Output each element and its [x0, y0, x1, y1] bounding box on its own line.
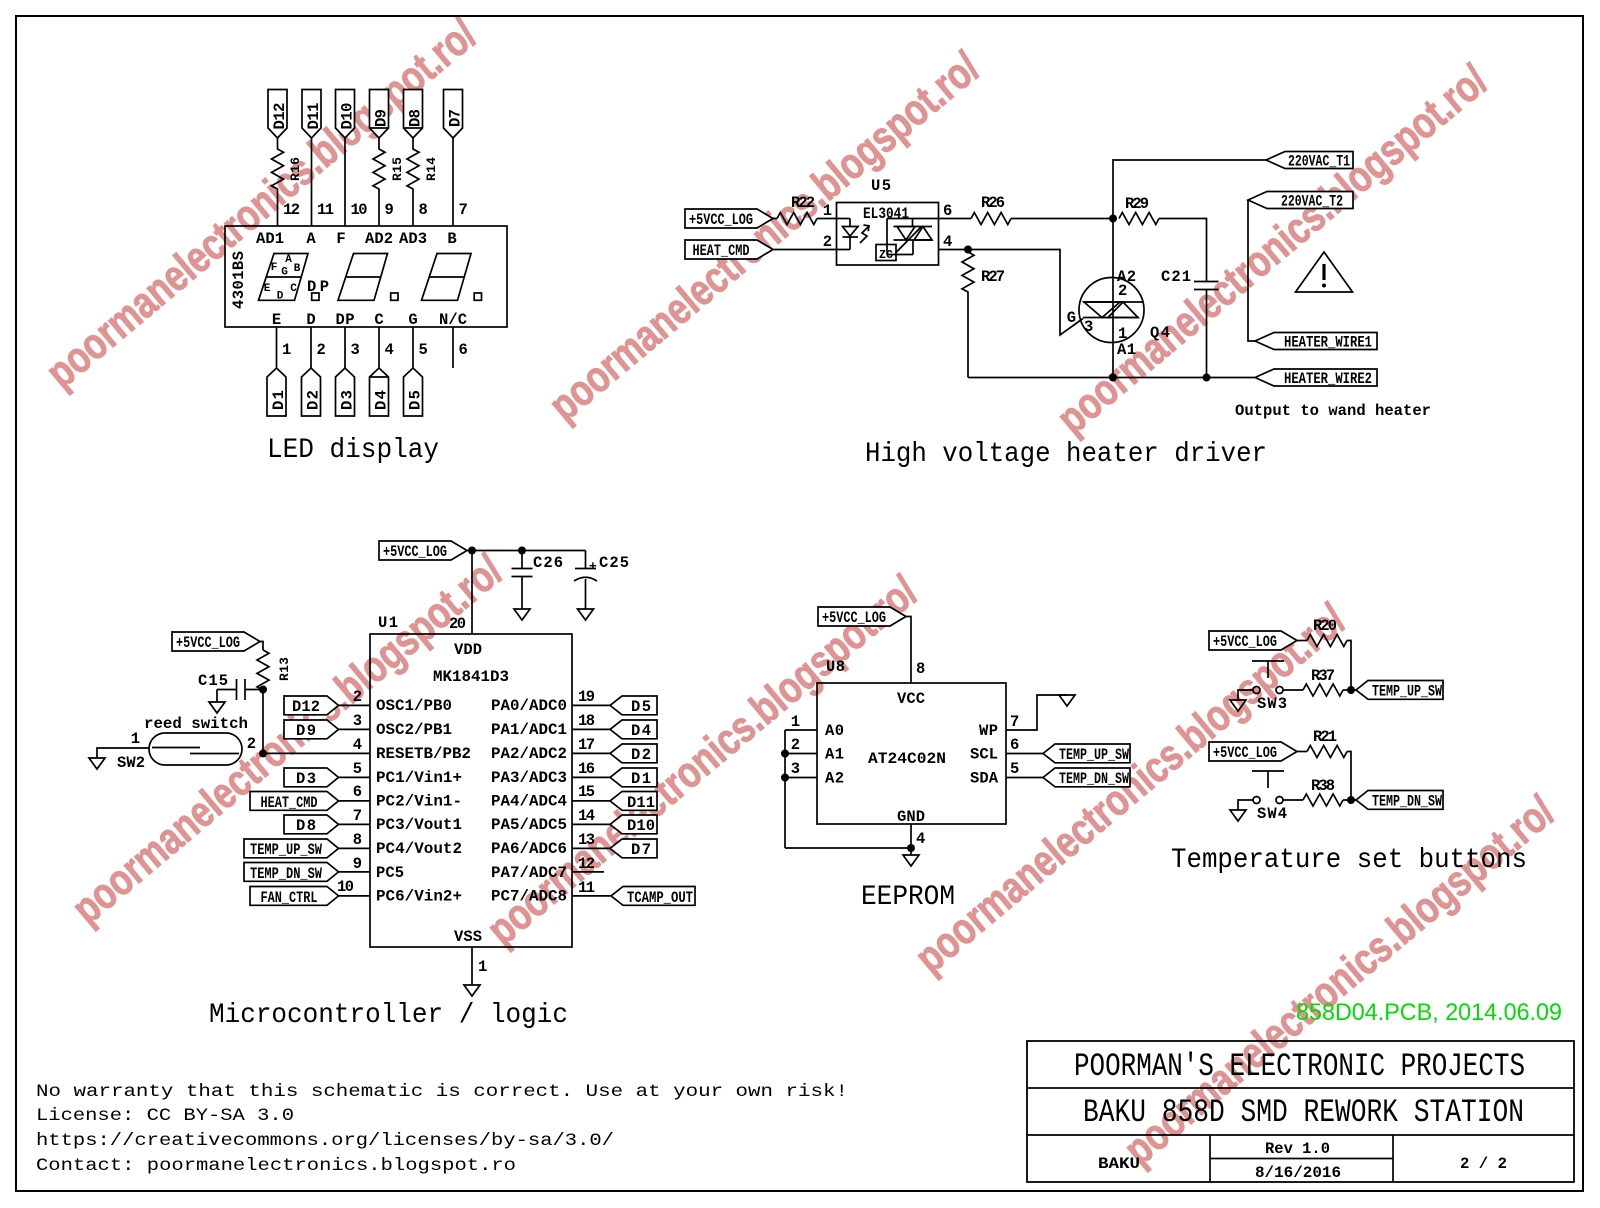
net flag D3 (U1) — [284, 760, 370, 788]
svg-text:3: 3 — [351, 341, 360, 359]
svg-text:R22: R22 — [791, 194, 815, 212]
svg-text:VSS: VSS — [454, 928, 482, 946]
junction node A1 — [781, 750, 789, 758]
net flag +5VCC_LOG (R20) — [1209, 631, 1297, 651]
net flag 220VAC_T2 — [1248, 192, 1353, 211]
wire flag to R13 — [260, 642, 263, 651]
wire R20 to node — [1347, 641, 1351, 691]
svg-text:1: 1 — [478, 958, 487, 976]
svg-text:3: 3 — [1084, 318, 1093, 336]
capacitor C25 polarized — [574, 551, 629, 610]
svg-text:RESETB/PB2: RESETB/PB2 — [376, 745, 471, 763]
svg-text:OSC1/PB0: OSC1/PB0 — [376, 697, 452, 715]
svg-text:A0: A0 — [825, 722, 844, 740]
svg-text:D4: D4 — [373, 390, 391, 410]
net flag HEATER_WIRE1 — [1255, 333, 1377, 352]
svg-text:D: D — [306, 311, 315, 329]
U5 light arrow — [860, 225, 869, 243]
svg-text:11: 11 — [578, 879, 595, 897]
svg-text:Rev 1.0: Rev 1.0 — [1265, 1140, 1330, 1158]
svg-text:R26: R26 — [981, 194, 1005, 212]
wire to U8 VCC — [906, 617, 911, 684]
svg-text:U5: U5 — [871, 177, 891, 195]
capacitor C26 — [512, 551, 564, 610]
svg-text:D1: D1 — [270, 390, 288, 410]
svg-text:4: 4 — [916, 830, 925, 848]
net flag D8 (U1) — [284, 807, 370, 835]
svg-text:PC2/Vin1-: PC2/Vin1- — [376, 793, 462, 811]
svg-text:8: 8 — [419, 201, 428, 219]
svg-text:5: 5 — [353, 760, 362, 778]
resistor R20 — [1307, 617, 1347, 647]
svg-text:R38: R38 — [1311, 777, 1335, 795]
svg-text:+: + — [589, 559, 597, 574]
svg-text:AD1: AD1 — [256, 230, 284, 248]
svg-text:B: B — [294, 263, 301, 275]
svg-text:D9: D9 — [296, 722, 316, 740]
connector flag D12 — [268, 90, 289, 139]
wire GND strap — [785, 824, 911, 855]
svg-text:AD2: AD2 — [365, 230, 393, 248]
U5 zero-cross box ZC — [876, 245, 896, 263]
svg-text:SW2: SW2 — [117, 754, 145, 772]
junction node R27 top — [964, 246, 972, 254]
svg-text:DP: DP — [336, 311, 355, 329]
svg-text:1: 1 — [282, 341, 291, 359]
U5 internal LED — [843, 219, 859, 250]
svg-text:A2: A2 — [825, 770, 844, 788]
resistor R22 — [777, 194, 817, 225]
svg-text:F: F — [271, 262, 278, 274]
svg-text:D4: D4 — [631, 722, 651, 740]
resistor R16 — [272, 138, 304, 226]
svg-text:D10: D10 — [627, 817, 655, 835]
svg-text:D11: D11 — [627, 794, 655, 812]
net flag TEMP_DN_SW (U1) — [244, 855, 370, 883]
svg-text:PA4/ADC4: PA4/ADC4 — [491, 793, 567, 811]
net flag 220VAC_T1 — [1266, 152, 1353, 171]
svg-text:D7: D7 — [631, 841, 651, 859]
svg-text:SW4: SW4 — [1257, 805, 1287, 823]
ground SW3 — [1230, 700, 1246, 711]
svg-text:SCL: SCL — [970, 746, 998, 764]
svg-text:PC6/Vin2+: PC6/Vin2+ — [376, 888, 462, 906]
net flag TCAMP_OUT (U1) — [572, 879, 695, 907]
svg-text:C21: C21 — [1161, 268, 1191, 286]
svg-text:3: 3 — [791, 760, 800, 778]
svg-text:D2: D2 — [631, 746, 651, 764]
svg-text:14: 14 — [578, 807, 595, 825]
net flag +5VCC_LOG (R13) — [172, 632, 260, 652]
eeprom U8 AT24C02N — [817, 658, 1006, 826]
svg-text:R13: R13 — [277, 657, 292, 681]
svg-text:Q4: Q4 — [1150, 324, 1170, 342]
svg-text:BAKU 858D SMD REWORK STATION: BAKU 858D SMD REWORK STATION — [1083, 1094, 1524, 1131]
svg-text:2: 2 — [247, 735, 256, 753]
wire pin12 PA7 — [572, 855, 604, 873]
net flag TEMP_UP_SW (U1) — [244, 831, 370, 859]
svg-text:4301BS: 4301BS — [230, 251, 248, 309]
svg-text:+5VCC_LOG: +5VCC_LOG — [1213, 633, 1277, 651]
svg-text:E: E — [264, 283, 271, 295]
net flag +5VCC_LOG (heater) — [685, 209, 773, 229]
svg-text:2: 2 — [791, 736, 800, 754]
7-segment digit 3 — [422, 254, 472, 301]
wire pin6 N/C — [452, 327, 454, 368]
svg-text:https://creativecommons.org/li: https://creativecommons.org/licenses/by-… — [36, 1131, 614, 1151]
svg-text:MK1841D3: MK1841D3 — [433, 668, 509, 686]
net flag HEATER_WIRE2 — [1255, 369, 1377, 388]
wire pin1 E — [276, 327, 278, 368]
junction node SW2/R13 — [259, 749, 267, 757]
svg-text:A: A — [306, 230, 316, 248]
wire pin3 DP — [344, 327, 346, 368]
wire R21 to node — [1347, 752, 1351, 801]
svg-text:OSC2/PB1: OSC2/PB1 — [376, 721, 452, 739]
DP square 1 — [312, 293, 319, 300]
svg-text:A2: A2 — [1117, 268, 1136, 286]
svg-text:C15: C15 — [198, 672, 228, 690]
svg-text:A1: A1 — [825, 746, 844, 764]
DP square 2 — [391, 293, 398, 300]
svg-text:AD3: AD3 — [399, 230, 427, 248]
junction node R13/C15 — [259, 686, 267, 694]
svg-text:D3: D3 — [339, 390, 357, 410]
svg-text:A: A — [285, 254, 292, 266]
U5 internal triac — [887, 219, 939, 255]
wire WP to ground — [1006, 695, 1067, 731]
svg-text:R21: R21 — [1313, 728, 1337, 746]
wire C21 to bottom rail — [1206, 290, 1208, 378]
wire 220VAC_T1 branch — [1113, 160, 1266, 219]
svg-text:16: 16 — [578, 760, 595, 778]
svg-text:1: 1 — [791, 713, 800, 731]
svg-text:220VAC_T2: 220VAC_T2 — [1281, 193, 1343, 211]
connector flag D11 — [302, 90, 323, 139]
svg-text:EL3041: EL3041 — [863, 205, 909, 223]
ground C26 — [514, 609, 530, 620]
net flag +5VCC_LOG (U8) — [818, 607, 906, 627]
svg-text:5: 5 — [419, 341, 428, 359]
svg-text:7: 7 — [459, 201, 468, 219]
svg-text:TCAMP_OUT: TCAMP_OUT — [627, 889, 693, 907]
svg-text:R16: R16 — [288, 157, 303, 181]
junction node C26 — [518, 547, 526, 555]
resistor R27 — [962, 250, 1005, 378]
net flag TEMP_DN_SW (U8) — [1006, 760, 1130, 788]
reed switch SW2 — [117, 715, 256, 772]
svg-text:SW3: SW3 — [1257, 695, 1287, 713]
connector flag D8 — [404, 90, 425, 139]
connector flag D7 — [444, 90, 465, 139]
wire pin5 G — [412, 327, 414, 368]
svg-text:D5: D5 — [407, 390, 425, 410]
wire R26 to R29 node — [1011, 218, 1113, 220]
ground SW2 — [89, 758, 105, 769]
svg-text:Microcontroller / logic: Microcontroller / logic — [209, 1000, 568, 1031]
svg-text:4: 4 — [943, 233, 952, 251]
junction node TEMP_UP — [1347, 686, 1355, 694]
wire HEAT_CMD to U5 pin2 — [773, 249, 850, 251]
svg-text:LED display: LED display — [267, 435, 439, 466]
svg-text:TEMP_DN_SW: TEMP_DN_SW — [250, 865, 323, 883]
svg-text:D5: D5 — [631, 698, 651, 716]
svg-text:B: B — [447, 230, 456, 248]
svg-text:High voltage heater driver: High voltage heater driver — [865, 439, 1267, 470]
svg-text:2: 2 — [823, 233, 832, 251]
svg-text:AT24C02N: AT24C02N — [868, 750, 946, 768]
svg-text:WP: WP — [979, 722, 998, 740]
svg-text:1: 1 — [823, 202, 832, 220]
wire VDD drop — [471, 551, 473, 635]
ground WP — [1059, 695, 1075, 706]
svg-text:PA7/ADC7: PA7/ADC7 — [491, 864, 567, 882]
svg-text:A1: A1 — [1117, 341, 1136, 359]
svg-text:220VAC_T1: 220VAC_T1 — [1288, 153, 1350, 171]
DP square 3 — [474, 293, 481, 300]
7-segment digit 2 — [338, 254, 388, 301]
svg-text:R29: R29 — [1125, 195, 1149, 213]
svg-text:6: 6 — [943, 202, 952, 220]
wire pin4 C — [378, 327, 380, 368]
svg-text:12: 12 — [578, 855, 595, 873]
svg-text:8: 8 — [916, 660, 925, 678]
svg-text:PC7/ADC8: PC7/ADC8 — [491, 888, 567, 906]
svg-text:HEATER_WIRE1: HEATER_WIRE1 — [1284, 334, 1372, 352]
junction node C21 rail — [1203, 374, 1211, 382]
svg-text:2: 2 — [353, 688, 362, 706]
wire pin2 D — [310, 327, 312, 368]
LED display body 4301BS — [225, 226, 507, 327]
ground SW4 — [1230, 810, 1246, 821]
wire R38 to node — [1343, 799, 1356, 801]
connector flag D4 — [370, 368, 391, 416]
svg-text:+5VCC_LOG: +5VCC_LOG — [822, 609, 886, 627]
wire +5V rail to C25 — [467, 550, 586, 552]
ground C25 — [578, 609, 594, 620]
wire R22 to U5 pin1 — [817, 218, 850, 220]
svg-text:Output to wand heater: Output to wand heater — [1235, 402, 1431, 420]
microcontroller U1 MK1841D3 — [370, 614, 572, 947]
wire SW3 to ground — [1238, 690, 1253, 700]
svg-text:U1: U1 — [378, 614, 398, 632]
wire T2 to HEATER_WIRE1 — [1248, 200, 1255, 341]
net flag TEMP_DN_SW (buttons) — [1356, 791, 1443, 811]
net flag D2 (U1) — [572, 736, 657, 764]
resistor R14 — [407, 138, 439, 226]
svg-text:GND: GND — [897, 808, 925, 826]
capacitor C21 — [1161, 268, 1219, 290]
wire R37 to node — [1343, 689, 1356, 691]
net flag D12 (U1) — [284, 688, 370, 716]
svg-text:2 / 2: 2 / 2 — [1460, 1155, 1507, 1173]
svg-text:VCC: VCC — [897, 690, 925, 708]
resistor R29 — [1119, 195, 1159, 225]
svg-text:E: E — [272, 311, 281, 329]
title block frame — [1027, 1041, 1574, 1182]
svg-text:19: 19 — [578, 688, 595, 706]
svg-text:D11: D11 — [305, 103, 323, 130]
wire flag to R21 — [1297, 751, 1307, 753]
svg-text:FAN_CTRL: FAN_CTRL — [261, 889, 318, 907]
resistor R26 — [971, 194, 1011, 225]
svg-text:TEMP_DN_SW: TEMP_DN_SW — [1059, 770, 1130, 788]
wire VSS to ground — [472, 947, 487, 985]
wire RESETB pin4 — [263, 736, 370, 754]
svg-text:D12: D12 — [292, 698, 320, 716]
svg-text:6: 6 — [353, 783, 362, 801]
svg-text:N/C: N/C — [439, 311, 467, 329]
svg-text:R20: R20 — [1313, 617, 1337, 635]
resistor R38 — [1303, 777, 1343, 806]
svg-text:18: 18 — [578, 712, 595, 730]
svg-text:VDD: VDD — [454, 641, 482, 659]
svg-text:HEAT_CMD: HEAT_CMD — [261, 794, 318, 812]
svg-text:R27: R27 — [981, 268, 1005, 286]
svg-text:9: 9 — [385, 201, 394, 219]
svg-text:TEMP_UP_SW: TEMP_UP_SW — [1372, 683, 1443, 701]
svg-text:PC1/Vin1+: PC1/Vin1+ — [376, 769, 462, 787]
junction node VDD — [468, 547, 476, 555]
svg-text:D3: D3 — [296, 770, 316, 788]
wire SW4 to R38 — [1283, 799, 1303, 801]
svg-text:858D04.PCB, 2014.06.09: 858D04.PCB, 2014.06.09 — [1296, 999, 1562, 1026]
net flag D7 (U1) — [572, 831, 657, 859]
svg-text:10: 10 — [337, 878, 354, 896]
svg-text:R14: R14 — [424, 157, 439, 181]
svg-text:ZC: ZC — [879, 248, 893, 262]
connector flag D2 — [302, 368, 323, 416]
net flag HEAT_CMD (U1) — [250, 783, 370, 812]
svg-text:C: C — [290, 283, 297, 295]
wire flag to R20 — [1297, 640, 1307, 642]
capacitor C15 — [198, 672, 263, 700]
net flag TEMP_UP_SW (U8) — [1006, 736, 1130, 764]
net flag D4 (U1) — [572, 712, 657, 740]
connector flag D3 — [336, 368, 357, 416]
svg-text:D8: D8 — [296, 817, 316, 835]
svg-text:TEMP_UP_SW: TEMP_UP_SW — [250, 841, 323, 859]
net flag +5VCC_LOG (U1 top) — [379, 541, 467, 561]
svg-text:TEMP_UP_SW: TEMP_UP_SW — [1059, 746, 1130, 764]
net flag D11 (U1) — [572, 783, 657, 812]
svg-text:R15: R15 — [390, 157, 405, 181]
svg-text:D9: D9 — [373, 109, 391, 127]
svg-text:D12: D12 — [271, 103, 289, 130]
svg-text:PA6/ADC6: PA6/ADC6 — [491, 840, 567, 858]
svg-text:D1: D1 — [631, 770, 651, 788]
svg-text:G: G — [408, 311, 417, 329]
wire flag to R22 — [773, 218, 777, 220]
junction node GND — [907, 844, 915, 852]
wire pin10 D10 — [344, 138, 346, 226]
connector flag D1 — [267, 368, 288, 416]
svg-text:D7: D7 — [447, 109, 465, 127]
svg-text:PA1/ADC1: PA1/ADC1 — [491, 721, 567, 739]
svg-text:F: F — [336, 230, 345, 248]
svg-text:Temperature set buttons: Temperature set buttons — [1171, 845, 1527, 876]
ground VSS — [464, 985, 480, 996]
7-segment digit 1 — [259, 254, 309, 303]
wire R29 to C21 — [1159, 219, 1207, 282]
svg-text:7: 7 — [1010, 713, 1019, 731]
ground U8 — [903, 855, 919, 866]
svg-text:+5VCC_LOG: +5VCC_LOG — [383, 543, 447, 561]
svg-text:+5VCC_LOG: +5VCC_LOG — [1213, 744, 1277, 762]
svg-text:D10: D10 — [339, 103, 357, 130]
svg-text:PA0/ADC0: PA0/ADC0 — [491, 697, 567, 715]
svg-text:10: 10 — [351, 201, 368, 219]
svg-text:6: 6 — [459, 341, 468, 359]
svg-text:POORMAN'S ELECTRONIC PROJECTS: POORMAN'S ELECTRONIC PROJECTS — [1074, 1048, 1525, 1085]
junction node R29 — [1109, 215, 1117, 223]
svg-text:EEPROM: EEPROM — [861, 882, 955, 913]
svg-text:2: 2 — [317, 341, 326, 359]
svg-text:5: 5 — [1010, 760, 1019, 778]
svg-text:U8: U8 — [826, 658, 845, 676]
resistor R13 — [257, 650, 292, 753]
svg-text:D8: D8 — [407, 109, 425, 127]
ground C15 — [209, 690, 225, 714]
svg-text:C26: C26 — [533, 554, 563, 572]
push button SW3 — [1252, 661, 1287, 713]
svg-text:No warranty that this schemati: No warranty that this schematic is corre… — [36, 1082, 848, 1102]
svg-text:PC4/Vout2: PC4/Vout2 — [376, 840, 462, 858]
wire SW4 to ground — [1238, 800, 1253, 810]
junction node TEMP_DN — [1347, 796, 1355, 804]
svg-text:C: C — [374, 311, 383, 329]
svg-text:8/16/2016: 8/16/2016 — [1255, 1164, 1341, 1182]
U8 address strap wires — [785, 713, 817, 848]
svg-text:HEATER_WIRE2: HEATER_WIRE2 — [1284, 370, 1372, 388]
net flag D10 (U1) — [572, 807, 657, 835]
svg-text:TEMP_DN_SW: TEMP_DN_SW — [1372, 793, 1443, 811]
svg-text:4: 4 — [353, 736, 362, 754]
svg-text:+5VCC_LOG: +5VCC_LOG — [689, 211, 753, 229]
svg-text:11: 11 — [317, 201, 334, 219]
svg-text:HEAT_CMD: HEAT_CMD — [693, 242, 750, 260]
svg-text:reed switch: reed switch — [144, 715, 248, 733]
svg-text:PA3/ADC3: PA3/ADC3 — [491, 769, 567, 787]
svg-text:G: G — [281, 267, 288, 279]
svg-text:+5VCC_LOG: +5VCC_LOG — [176, 634, 240, 652]
connector flag D5 — [404, 368, 425, 416]
svg-text:13: 13 — [578, 831, 595, 849]
svg-text:17: 17 — [578, 736, 595, 754]
net flag D1 (U1) — [572, 760, 657, 788]
svg-text:6: 6 — [1010, 736, 1019, 754]
svg-text:12: 12 — [283, 201, 300, 219]
connector flag D10 — [336, 90, 357, 139]
svg-text:20: 20 — [449, 615, 466, 633]
net flag HEAT_CMD (heater) — [685, 240, 773, 260]
svg-text:7: 7 — [353, 807, 362, 825]
wire pin11 D11 — [311, 138, 313, 226]
net flag +5VCC_LOG (R21) — [1209, 742, 1297, 762]
junction node A2 — [781, 774, 789, 782]
svg-text:3: 3 — [353, 712, 362, 730]
wire SW3 to R37 — [1283, 689, 1303, 691]
svg-text:PC3/Vout1: PC3/Vout1 — [376, 816, 462, 834]
bottom rail wire — [968, 377, 1255, 379]
svg-text:C25: C25 — [599, 554, 629, 572]
svg-text:BAKU: BAKU — [1098, 1155, 1140, 1173]
svg-text:1: 1 — [131, 730, 140, 748]
net flag FAN_CTRL (U1) — [250, 878, 370, 907]
svg-text:15: 15 — [578, 783, 595, 801]
svg-text:PA5/ADC5: PA5/ADC5 — [491, 816, 567, 834]
push button SW4 — [1252, 771, 1287, 823]
